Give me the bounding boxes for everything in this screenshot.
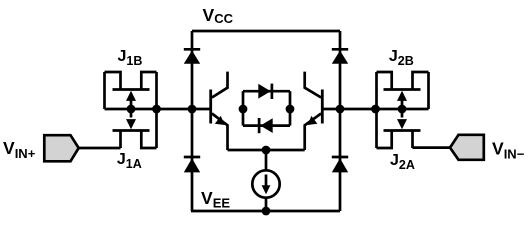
terminal Vin-: [450, 135, 484, 160]
diode clamp top (anti-parallel pair): [243, 84, 290, 126]
wire J1 right outer leg: [155, 72, 158, 148]
junction dot Vee: [262, 207, 271, 216]
svg-text:J2B: J2B: [389, 48, 414, 68]
wire J2 right outer leg: [427, 72, 430, 109]
wire J2A to Vin-: [413, 146, 451, 149]
wire current source to Vee: [265, 198, 268, 211]
junction dot clamp right: [286, 105, 295, 114]
svg-text:J2A: J2A: [390, 152, 415, 172]
current source I1: [252, 170, 279, 197]
wire left rail vertical: [191, 31, 194, 211]
junction dot right rail: [336, 105, 345, 114]
svg-text:J1B: J1B: [118, 48, 143, 68]
JFET J2A: [377, 109, 421, 148]
transistor Q1: [211, 72, 228, 150]
diode right-rail top: [332, 49, 348, 64]
wire J1 left outer leg: [103, 72, 106, 109]
svg-text:VCC: VCC: [203, 5, 234, 26]
svg-text:VEE: VEE: [201, 188, 230, 211]
transistor Q2: [305, 72, 323, 150]
svg-text:J1A: J1A: [117, 151, 142, 171]
Vcc rail: [192, 30, 340, 33]
JFET J1B: [105, 72, 157, 109]
JFET J2B: [377, 72, 429, 109]
junction dot J2 source leg: [371, 105, 380, 114]
diode right-rail bottom: [332, 157, 348, 172]
junction dot clamp left: [239, 105, 248, 114]
svg-text:VIN−: VIN−: [492, 138, 525, 161]
wire emitter rail: [228, 149, 305, 152]
junction dot gate J2: [398, 105, 407, 114]
junction dot J1 source leg: [152, 105, 161, 114]
wire emitter to current source: [265, 150, 268, 170]
Vee rail: [191, 210, 340, 213]
terminal Vin+: [44, 135, 78, 161]
junction dot gate J1: [127, 105, 136, 114]
junction dot emitter rail: [262, 146, 271, 155]
diode clamp bottom (anti-parallel pair): [243, 118, 290, 133]
JFET J1A: [113, 109, 157, 148]
wire right rail vertical: [339, 31, 342, 211]
junction dot left rail: [188, 105, 197, 114]
wire Vin+ to J1A: [79, 147, 121, 150]
svg-text:VIN+: VIN+: [3, 138, 36, 161]
wire right gate bus: [322, 108, 428, 111]
wire J2 left outer leg: [375, 72, 378, 148]
diode left-rail bottom: [184, 157, 200, 172]
diode left-rail top: [184, 49, 200, 64]
wire left gate bus: [105, 108, 211, 111]
